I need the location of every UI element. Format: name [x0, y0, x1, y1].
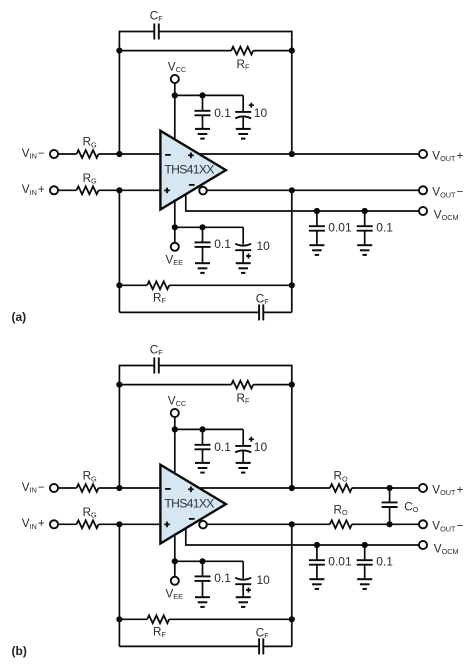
capacitor 0.01 (VOCM) (a) — [316, 211, 318, 226]
supply terminal VCC (a) — [171, 75, 179, 83]
svg-text:CO: CO — [404, 501, 418, 515]
capacitor 0.01 (VOCM) (b) — [316, 545, 318, 560]
svg-text:THS41XX: THS41XX — [164, 496, 214, 510]
resistor RO (upper) (b) — [330, 484, 352, 492]
ground (VOCM 0.1uF) (a) — [357, 244, 372, 246]
svg-text:VIN+: VIN+ — [22, 517, 45, 531]
pin label - (inverting in) (a) — [165, 154, 171, 156]
pin label + (noninv in) (a) — [164, 189, 170, 191]
wire: RG to noninverting input (b) — [99, 523, 161, 525]
svg-text:10: 10 — [257, 573, 271, 587]
svg-text:VCC: VCC — [168, 61, 186, 75]
terminal VIN- (b) — [50, 484, 58, 492]
terminal VOUT- (a) — [419, 186, 427, 194]
wire: RG to inverting input (b) — [99, 487, 161, 489]
resistor RF (top feedback) (b) — [231, 381, 253, 389]
capacitor 0.1 (VCC bypass) (b) — [202, 429, 204, 444]
node: VEE rail at stem (b) — [172, 558, 178, 564]
node: VOCM at 0.1uF (a) — [362, 208, 368, 214]
node: top-left feedback junction (b) — [116, 382, 122, 388]
wire: R_F bottom row (a) — [119, 284, 147, 286]
wire: right feedback vertical upper (b) — [291, 385, 293, 488]
wire: VEE rail (b) — [175, 560, 243, 562]
svg-text:0.01: 0.01 — [328, 221, 352, 235]
wire: VEE node to terminal (b) — [174, 561, 176, 577]
svg-text:RF: RF — [237, 58, 250, 72]
node: VCC rail at 0.1uF (b) — [199, 426, 205, 432]
pin label - (inverting out) (a) — [189, 184, 195, 186]
wire: -output to node (a) — [203, 189, 292, 191]
wire: left feedback vertical lower (a) — [118, 190, 120, 312]
svg-text:RG: RG — [83, 506, 97, 520]
node: VOUT- feedback tap (b) — [289, 521, 295, 527]
svg-text:0.01: 0.01 — [328, 555, 352, 569]
wire: VIN- to RG (a) — [58, 153, 77, 155]
op-amp Ub THS41XX (fully differential) — [160, 465, 226, 544]
terminal VOCM (b) — [419, 541, 427, 549]
node: bottom-right feedback junction (b) — [289, 616, 295, 622]
wire: VOCM pin down and right (a) — [186, 193, 419, 212]
wire: +output to node (b) — [196, 487, 292, 489]
wire: VOUT+ node to RO (b) — [292, 487, 330, 489]
capacitor 0.1 (VCC bypass) (a) — [202, 95, 204, 110]
capacitor 0.1 (VOCM) (b) — [364, 545, 366, 560]
terminal VIN- (a) — [50, 150, 58, 158]
svg-text:RG: RG — [83, 470, 97, 484]
capacitor 10 electrolytic (VEE bulk) (a) — [242, 227, 244, 244]
node: VOUT+ feedback tap (a) — [289, 151, 295, 157]
svg-text:VIN+: VIN+ — [22, 183, 45, 197]
node: VOUT- feedback tap (a) — [289, 187, 295, 193]
ground (VCC 0.1uF) (a) — [195, 128, 210, 130]
wire: RG to inverting input (a) — [99, 153, 161, 155]
svg-text:VOUT−: VOUT− — [432, 186, 463, 200]
node: VOUT+ feedback tap (b) — [289, 485, 295, 491]
svg-text:VIN−: VIN− — [22, 481, 45, 495]
node: top-right feedback junction (a) — [289, 48, 295, 54]
pin label - (inverting in) (b) — [165, 488, 171, 490]
wire: right feedback vertical lower (b) — [291, 524, 293, 646]
wire: R_F top row (a) — [119, 50, 231, 52]
wire: R_F top row (b) — [119, 384, 231, 386]
op-amp Ua THS41XX (fully differential) — [160, 131, 226, 210]
node: VCC rail at stem (a) — [172, 92, 178, 98]
wire: left feedback vertical upper (b) — [118, 385, 120, 488]
resistor RF (bottom feedback) (a) — [147, 281, 169, 289]
wire: VCC to rail node (a) — [174, 83, 176, 96]
svg-text:10: 10 — [254, 106, 268, 120]
wire: right feedback vertical lower (a) — [291, 190, 293, 312]
capacitor CF bottom (b) — [258, 638, 260, 654]
node: VCC rail at stem (b) — [172, 426, 178, 432]
svg-text:RO: RO — [334, 503, 348, 517]
svg-text:CF: CF — [150, 344, 163, 358]
svg-text:RF: RF — [237, 392, 250, 406]
svg-text:VEE: VEE — [166, 587, 184, 601]
ground (VOCM 0.01uF) (b) — [309, 578, 324, 580]
wire: VEE rail (a) — [175, 226, 243, 228]
capacitor 10 electrolytic (VCC bulk) (b) — [242, 429, 244, 446]
wire: bottom C_F loop (b) — [119, 645, 259, 647]
svg-text:RG: RG — [83, 172, 97, 186]
wire: right feedback vertical upper (a) — [291, 51, 293, 154]
resistor RG (lower) (b) — [77, 520, 99, 528]
node: lower input / feedback (a) — [116, 187, 122, 193]
node: bottom-left feedback junction (a) — [116, 282, 122, 288]
inverting output bubble (a) — [199, 187, 207, 195]
wire: RO to CO node (b) — [352, 487, 390, 489]
resistor RG (upper) (a) — [77, 150, 99, 158]
node: lower input / feedback (b) — [116, 521, 122, 527]
node: upper CO junction (b) — [387, 485, 393, 491]
wire: top C_F loop (a) — [119, 32, 291, 51]
wire: VOUT+ node to terminal (a) — [292, 153, 419, 155]
inverting output bubble (b) — [199, 521, 207, 529]
wire: VIN- to RG (b) — [58, 487, 77, 489]
resistor RO (lower) (b) — [330, 520, 352, 528]
node: lower CO junction (b) — [387, 521, 393, 527]
ground (VEE 10uF) (b) — [236, 596, 251, 598]
node: VEE rail at 0.1uF (b) — [199, 558, 205, 564]
node: VOCM at 0.01uF (a) — [314, 208, 320, 214]
svg-text:0.1: 0.1 — [214, 440, 231, 454]
node: bottom-left feedback junction (b) — [116, 616, 122, 622]
svg-text:0.1: 0.1 — [376, 555, 393, 569]
svg-text:0.1: 0.1 — [376, 221, 393, 235]
svg-text:VOCM: VOCM — [434, 208, 459, 222]
ground (VEE 0.1uF) (b) — [195, 596, 210, 598]
wire: VOCM pin down and right (b) — [186, 527, 419, 546]
svg-text:10: 10 — [257, 239, 271, 253]
ground (VCC 10uF) (b) — [236, 462, 251, 464]
wire: left feedback vertical lower (b) — [118, 524, 120, 646]
node: VEE rail at stem (a) — [172, 224, 178, 230]
svg-text:VOUT+: VOUT+ — [432, 149, 463, 163]
svg-text:VOUT+: VOUT+ — [432, 483, 463, 497]
svg-text:(a): (a) — [12, 310, 27, 324]
wire: RG to noninverting input (a) — [99, 189, 161, 191]
wire: VOUT- node to terminal (a) — [292, 189, 419, 191]
node: upper input / feedback (a) — [116, 151, 122, 157]
svg-text:0.1: 0.1 — [214, 237, 231, 251]
supply terminal VEE (a) — [171, 243, 179, 251]
resistor RG (upper) (b) — [77, 484, 99, 492]
capacitor 0.1 (VEE bypass) (a) — [202, 227, 204, 242]
node: VCC rail at 0.1uF (a) — [199, 92, 205, 98]
svg-text:VEE: VEE — [166, 253, 184, 267]
svg-text:THS41XX: THS41XX — [164, 162, 214, 176]
svg-text:CF: CF — [150, 10, 163, 24]
ground (VOCM 0.1uF) (b) — [357, 578, 372, 580]
wire: node to VOUT+ terminal (b) — [390, 487, 420, 489]
capacitor CF bottom (a) — [258, 304, 260, 320]
resistor RF (bottom feedback) (b) — [147, 615, 169, 623]
supply terminal VEE (b) — [171, 577, 179, 585]
terminal VOUT+ (b) — [419, 484, 427, 492]
svg-text:VCC: VCC — [168, 395, 186, 409]
svg-text:VOCM: VOCM — [434, 542, 459, 556]
node: VEE rail at 0.1uF (a) — [199, 224, 205, 230]
svg-text:10: 10 — [254, 440, 268, 454]
pin label - (inverting out) (b) — [189, 518, 195, 520]
wire: VCC to rail node (b) — [174, 417, 176, 430]
wire: -output to node (b) — [203, 523, 292, 525]
svg-text:CF: CF — [256, 627, 269, 641]
pin label + (noninv out) (b) — [188, 488, 194, 490]
wire: op-amp down to VEE node (a) — [174, 200, 176, 228]
wire: VCC down to op-amp (b) — [174, 429, 176, 474]
terminal VIN+ (a) — [50, 186, 58, 194]
capacitor 0.1 (VEE bypass) (b) — [202, 561, 204, 576]
ground (VCC 10uF) (a) — [236, 128, 251, 130]
terminal VOUT+ (a) — [419, 150, 427, 158]
ground (VCC 0.1uF) (b) — [195, 462, 210, 464]
svg-text:RG: RG — [83, 136, 97, 150]
wire: VIN+ to RG (a) — [58, 189, 77, 191]
capacitor 10 electrolytic (VEE bulk) (b) — [242, 561, 244, 578]
svg-text:CF: CF — [256, 293, 269, 307]
capacitor CF top (b) — [153, 358, 155, 374]
node: VOCM at 0.01uF (b) — [314, 542, 320, 548]
node: bottom-right feedback junction (a) — [289, 282, 295, 288]
ground (VEE 10uF) (a) — [236, 262, 251, 264]
wire: +output to node (a) — [196, 153, 292, 155]
pin label + (noninv out) (a) — [188, 154, 194, 156]
resistor RG (lower) (a) — [77, 186, 99, 194]
capacitor 0.1 (VOCM) (a) — [364, 211, 366, 226]
wire: R_F bottom row (b) — [119, 618, 147, 620]
node: top-right feedback junction (b) — [289, 382, 295, 388]
svg-text:RF: RF — [153, 292, 166, 306]
terminal VOUT- (b) — [419, 520, 427, 528]
node: top-left feedback junction (a) — [116, 48, 122, 54]
wire: bottom C_F loop (a) — [119, 311, 259, 313]
terminal VOCM (a) — [419, 207, 427, 215]
wire: op-amp down to VEE node (b) — [174, 534, 176, 562]
terminal VIN+ (b) — [50, 520, 58, 528]
svg-text:VOUT−: VOUT− — [432, 520, 463, 534]
wire: VEE node to terminal (a) — [174, 227, 176, 243]
pin label + (noninv in) (b) — [164, 523, 170, 525]
capacitor CF top (a) — [153, 24, 155, 40]
wire: VOUT- node to RO (b) — [292, 523, 330, 525]
resistor RF (top feedback) (a) — [231, 47, 253, 55]
wire: RO to CO node (b) — [352, 523, 390, 525]
wire: top C_F loop (b) — [119, 366, 291, 385]
capacitor 10 electrolytic (VCC bulk) (a) — [242, 95, 244, 112]
wire: left feedback vertical upper (a) — [118, 51, 120, 154]
wire: VIN+ to RG (b) — [58, 523, 77, 525]
svg-text:(b): (b) — [12, 644, 27, 658]
svg-text:VIN−: VIN− — [22, 147, 45, 161]
wire: VCC rail (a) — [175, 94, 243, 96]
wire: VCC down to op-amp (a) — [174, 95, 176, 140]
wire: VCC rail (b) — [175, 428, 243, 430]
ground (VEE 0.1uF) (a) — [195, 262, 210, 264]
node: VOCM at 0.1uF (b) — [362, 542, 368, 548]
svg-text:0.1: 0.1 — [214, 571, 231, 585]
ground (VOCM 0.01uF) (a) — [309, 244, 324, 246]
capacitor CO across outputs (b) — [389, 488, 391, 502]
wire: node to VOUT- terminal (b) — [390, 523, 420, 525]
svg-text:RF: RF — [153, 626, 166, 640]
node: upper input / feedback (b) — [116, 485, 122, 491]
svg-text:0.1: 0.1 — [214, 106, 231, 120]
svg-text:RO: RO — [334, 470, 348, 484]
supply terminal VCC (b) — [171, 409, 179, 417]
